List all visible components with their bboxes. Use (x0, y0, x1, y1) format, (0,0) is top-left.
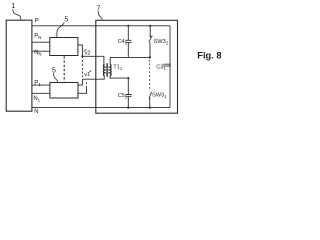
wire lower cell AC stub 1 (78, 79, 82, 85)
leader for label 7 (98, 11, 102, 20)
wire upper cell AC stub (78, 45, 83, 56)
wire N1 (32, 92, 50, 94)
converter cell 5 lower (50, 83, 78, 99)
switch SW3-2 wire bottom (149, 42, 151, 57)
wire lower cell AC stub 2 (78, 88, 87, 94)
wire P rail (32, 25, 170, 27)
capacitor C4 wires (127, 26, 129, 58)
wire secondary top (110, 57, 150, 64)
transformer core (106, 63, 109, 76)
leader for upper 5 (57, 22, 64, 37)
svg-text:v1: v1 (84, 72, 90, 78)
dashed line repeated cells (63, 56, 65, 82)
svg-text:SW32: SW32 (154, 39, 169, 46)
switch SW3-1 wire bottom (149, 99, 151, 107)
transformer T1 secondary coil (110, 64, 111, 76)
svg-text:5: 5 (52, 68, 56, 75)
converter cell 5 upper (50, 38, 78, 56)
svg-text:v2: v2 (85, 50, 91, 56)
wire v2 to transformer primary top (82, 56, 104, 64)
node SW3-1 bottom dot (149, 107, 151, 109)
dashed coupling between switches (149, 60, 151, 91)
node secondary-C5 dot (127, 77, 129, 79)
wire right rail through C3 (169, 26, 171, 108)
wire PN (32, 41, 50, 43)
svg-text:P1: P1 (34, 80, 41, 87)
capacitor C5 plates (125, 95, 131, 97)
svg-text:C31: C31 (156, 65, 166, 72)
svg-text:N1: N1 (33, 96, 40, 103)
capacitor C3 plates (163, 64, 171, 66)
svg-text:5: 5 (64, 17, 68, 24)
wire NN (32, 50, 50, 52)
wire secondary bottom (110, 76, 128, 78)
svg-text:PN: PN (34, 34, 41, 41)
wire chain dashed v2 to v1 (81, 56, 83, 79)
node SW3-2 top dot (149, 25, 151, 27)
svg-text:T11: T11 (113, 64, 123, 71)
svg-text:N: N (34, 109, 38, 115)
switch SW3-2 blade (149, 35, 153, 42)
svg-text:SW31: SW31 (152, 92, 167, 99)
capacitor C5 wires (127, 78, 129, 108)
svg-text:Fig. 8: Fig. 8 (197, 50, 221, 60)
capacitor C4 plates (125, 40, 131, 42)
wire N rail (32, 107, 170, 109)
converter box 1 (6, 20, 32, 111)
wire P1 (32, 84, 50, 86)
arrow v1 (89, 70, 91, 72)
node C5 bottom dot (127, 107, 129, 109)
node v2 junction dot (81, 55, 83, 57)
switch SW3-1 pivot (149, 98, 151, 100)
switch SW3-2 pivot (149, 36, 151, 38)
svg-text:P: P (35, 19, 39, 25)
leader for label 1 (13, 9, 21, 20)
wire chain dashed stub2 up (86, 82, 88, 88)
transformer T1 primary coil (103, 64, 104, 76)
svg-text:C41: C41 (118, 39, 128, 46)
arrow v2 (84, 49, 86, 51)
wire v1 to transformer primary bottom (82, 76, 104, 79)
circuit box 7 (96, 20, 178, 113)
switch SW3-2 wire top (149, 26, 151, 36)
svg-text:C51: C51 (118, 93, 128, 100)
node C4 top dot (127, 25, 129, 27)
node switch mid dot (149, 56, 151, 58)
switch SW3-1 blade (149, 92, 152, 98)
leader for lower 5 (54, 73, 58, 82)
